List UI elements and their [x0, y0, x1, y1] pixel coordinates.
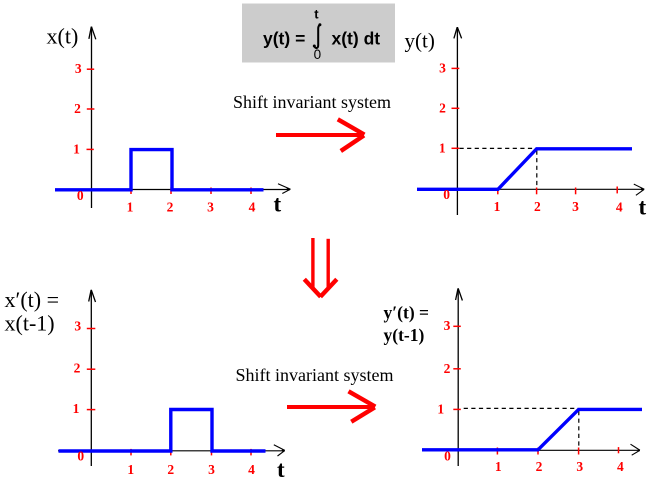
red ticks g4 [453, 326, 618, 454]
svg-text:3: 3 [208, 462, 215, 477]
svg-text:0: 0 [314, 47, 322, 62]
y-axis arrowhead [456, 289, 458, 301]
svg-text:4: 4 [249, 199, 256, 214]
y-axis arrowhead [89, 290, 91, 302]
formula box [242, 4, 395, 63]
svg-text:y(t): y(t) [405, 29, 435, 53]
x-axis [422, 449, 640, 451]
svg-text:3: 3 [74, 318, 81, 333]
x-axis arrowhead [274, 445, 285, 451]
x-axis arrowhead [278, 184, 291, 189]
svg-text:1: 1 [495, 459, 502, 474]
svg-text:x(t-1): x(t-1) [5, 310, 55, 335]
svg-text:0: 0 [77, 188, 84, 203]
svg-text:1: 1 [439, 140, 446, 155]
svg-text:x(t) dt: x(t) dt [332, 29, 381, 49]
y-axis [90, 290, 92, 466]
red double arrow down [304, 238, 337, 297]
svg-text:y(t) =: y(t) = [263, 29, 305, 49]
svg-text:1: 1 [437, 401, 444, 416]
y-axis [91, 27, 93, 209]
svg-text:0: 0 [77, 449, 84, 464]
svg-text:Shift invariant system: Shift invariant system [233, 92, 391, 112]
x-axis [56, 189, 290, 191]
svg-text:t: t [314, 7, 319, 22]
svg-text:3: 3 [572, 199, 579, 214]
red arrow (top) [276, 119, 364, 151]
x-axis [58, 450, 285, 452]
svg-text:2: 2 [74, 101, 81, 116]
signal y(t): ramp [417, 149, 632, 190]
svg-text:3: 3 [439, 61, 446, 76]
svg-text:Shift invariant system: Shift invariant system [236, 365, 394, 385]
signal x(t): pulse 1..2 [55, 150, 264, 190]
svg-text:0: 0 [444, 448, 451, 463]
svg-text:4: 4 [616, 200, 623, 215]
svg-text:2: 2 [534, 199, 541, 214]
svg-text:t: t [274, 192, 282, 217]
integral sign [314, 25, 319, 48]
svg-text:x(t): x(t) [47, 24, 79, 49]
svg-text:1: 1 [73, 141, 80, 156]
svg-text:3: 3 [75, 61, 82, 76]
dashed level line g2 [460, 148, 537, 187]
svg-text:2: 2 [444, 361, 451, 376]
svg-text:1: 1 [127, 462, 134, 477]
x-axis [420, 188, 644, 190]
dashed level line g4 [464, 408, 579, 447]
red ticks g3 [87, 329, 251, 456]
y-axis [457, 288, 459, 466]
svg-text:2: 2 [74, 361, 81, 376]
svg-text:2: 2 [167, 199, 174, 214]
svg-text:2: 2 [536, 459, 543, 474]
signal y'(t): delayed ramp [422, 409, 642, 449]
svg-text:3: 3 [444, 318, 451, 333]
y-axis arrowhead [454, 27, 457, 38]
red ticks g1 [87, 69, 252, 194]
svg-text:3: 3 [207, 199, 214, 214]
svg-text:t: t [639, 195, 647, 220]
y-axis [456, 27, 458, 215]
svg-text:y(t-1): y(t-1) [384, 325, 425, 345]
svg-text:t: t [277, 457, 285, 482]
svg-text:1: 1 [73, 401, 80, 416]
svg-text:y′(t) =: y′(t) = [384, 302, 430, 322]
red ticks g2 [452, 68, 618, 194]
svg-text:1: 1 [127, 199, 134, 214]
svg-text:3: 3 [576, 459, 583, 474]
x-axis arrowhead [631, 444, 640, 450]
svg-text:2: 2 [439, 100, 446, 115]
x-axis arrowhead [634, 184, 645, 189]
y-axis arrowhead [89, 27, 91, 39]
signal x'(t): pulse 2..3 [59, 410, 266, 452]
svg-text:4: 4 [617, 459, 624, 474]
svg-text:2: 2 [167, 462, 174, 477]
svg-text:x′(t) =: x′(t) = [5, 287, 59, 312]
svg-text:1: 1 [494, 199, 501, 214]
svg-text:4: 4 [248, 462, 255, 477]
svg-text:0: 0 [443, 187, 450, 202]
red arrow (bottom) [287, 391, 375, 422]
